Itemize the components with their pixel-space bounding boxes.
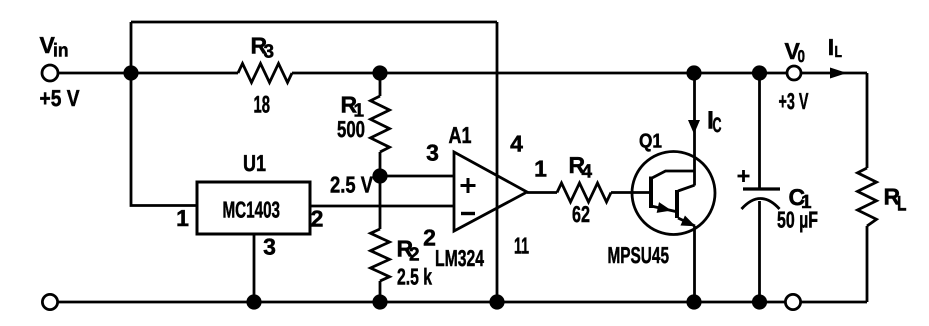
svg-text:I: I (828, 34, 834, 60)
svg-text:4: 4 (510, 131, 523, 157)
svg-text:MC1403: MC1403 (223, 197, 281, 223)
svg-text:LM324: LM324 (435, 245, 484, 271)
svg-text:L: L (897, 193, 907, 216)
svg-text:+3 V: +3 V (779, 88, 809, 114)
svg-text:0: 0 (798, 47, 806, 66)
svg-text:500: 500 (337, 116, 365, 142)
svg-text:+5 V: +5 V (40, 85, 81, 111)
svg-text:2.5 k: 2.5 k (397, 264, 432, 290)
svg-text:L: L (835, 44, 843, 61)
svg-text:A1: A1 (449, 122, 472, 148)
svg-text:62: 62 (572, 201, 590, 227)
svg-text:in: in (53, 41, 69, 62)
svg-text:18: 18 (254, 92, 271, 119)
svg-text:2: 2 (423, 225, 436, 251)
svg-text:50 µF: 50 µF (777, 207, 818, 233)
svg-text:11: 11 (514, 233, 529, 259)
svg-text:1: 1 (176, 205, 189, 231)
svg-text:2.5 V: 2.5 V (330, 172, 374, 198)
svg-text:Q1: Q1 (639, 131, 662, 153)
svg-text:2: 2 (311, 206, 324, 232)
svg-text:3: 3 (264, 42, 275, 63)
svg-text:3: 3 (426, 140, 439, 166)
svg-text:U1: U1 (243, 150, 266, 176)
svg-text:C: C (713, 114, 722, 137)
svg-text:2: 2 (409, 245, 420, 266)
svg-text:MPSU45: MPSU45 (608, 242, 670, 268)
svg-text:3: 3 (263, 234, 276, 260)
svg-text:1: 1 (534, 156, 547, 182)
svg-text:4: 4 (582, 162, 593, 183)
